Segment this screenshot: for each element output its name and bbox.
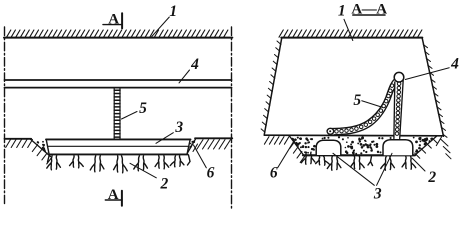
roots / soil cracks 2 (plan) (47, 155, 190, 173)
svg-text:6: 6 (270, 165, 278, 182)
tube: white core of vertical limb (394, 80, 403, 139)
wire: conveyor line 4 lower (5, 87, 232, 89)
node: excavation floor line (264, 134, 443, 137)
hatch below right ground line (193, 140, 231, 152)
title underline A-A (353, 14, 385, 16)
ticks on right wall (423, 45, 451, 159)
tube: end cap (327, 128, 334, 134)
tube: curved limb outer edge (332, 80, 394, 129)
svg-text:3: 3 (174, 119, 183, 136)
leader for label 1 (left) (152, 17, 170, 37)
svg-text:2: 2 (160, 176, 169, 193)
wire: conveyor line 4 upper (5, 79, 232, 81)
tube: corrugation rings (335, 84, 394, 133)
ticks on left wall (261, 41, 281, 132)
hatch below left ground and slope (6, 140, 52, 165)
stipple backfill wedge right (189, 140, 195, 148)
svg-text:6: 6 (207, 164, 215, 181)
leader for label 3 (left) (156, 133, 173, 144)
trench left slope (289, 135, 304, 155)
arch channel 3 left (mouse hole) (316, 140, 341, 155)
hatch of top ground line (279, 30, 422, 37)
trench bottom line (303, 154, 415, 156)
ladder rungs (114, 90, 120, 137)
node: top ground line (1) (281, 37, 422, 39)
section mark A bottom: underline (105, 199, 122, 201)
trough 3: bottom line (49, 153, 188, 155)
svg-text:1: 1 (338, 3, 346, 20)
ladder: corrugated hose 5 (plan) rails (114, 88, 120, 139)
leader for label 6 (right) (278, 139, 296, 168)
svg-text:5: 5 (353, 92, 361, 109)
hatch below floor left (264, 137, 305, 163)
trough 3: right end (187, 139, 190, 153)
section mark A top: underline (103, 24, 122, 26)
hatch below floor right (415, 137, 442, 158)
wire: right trench slope (187, 139, 195, 153)
svg-text:4: 4 (450, 55, 459, 72)
trough 3: top line (46, 138, 191, 140)
node: right ground line at trench (195, 137, 232, 139)
leader for label 5 (left) (122, 112, 138, 120)
tube: bend nozzle 4 (394, 72, 404, 82)
leader for label 1 (right) (344, 19, 353, 40)
tube: vertical limb rails (394, 80, 403, 139)
tube: curved limb inner edge (334, 88, 395, 135)
wire: left excavation wall (264, 38, 282, 135)
section mark A top: cut bar (121, 13, 123, 28)
wire: left trench slope (31, 139, 51, 156)
trench right slope (415, 136, 437, 155)
svg-text:4: 4 (190, 56, 199, 73)
leaders for label 3 (right) (333, 153, 392, 185)
stipple backfill wedge left (37, 141, 46, 152)
wire: right cutting-plane dash-dot border (231, 27, 233, 209)
wire: right excavation wall (422, 38, 443, 137)
svg-text:А: А (108, 187, 119, 203)
wire: left cutting-plane dash-dot border (4, 27, 6, 204)
trough 3: left end (46, 139, 49, 155)
node: top ground edge line (1) (4, 37, 232, 39)
svg-text:2: 2 (427, 169, 436, 186)
leader for label 6 (left) (194, 145, 207, 168)
svg-text:А: А (108, 12, 119, 28)
leader for label 2 (left) (130, 163, 156, 178)
stipple of trench backfill (291, 136, 432, 154)
trough 3: middle line (48, 145, 188, 147)
section mark A bottom: cut bar (121, 191, 123, 206)
leader for label 2 (right) (412, 158, 425, 171)
hatch of top ground edge (7, 30, 228, 37)
svg-text:3: 3 (373, 186, 382, 203)
leader for label 5 (right) (362, 101, 383, 108)
roots / soil cracks 2 (section) (301, 152, 415, 170)
tube: vertical limb beads (395, 82, 401, 135)
svg-text:5: 5 (139, 100, 147, 117)
svg-text:А—А: А—А (351, 1, 387, 17)
arch channel 3 right (mouse hole) (383, 140, 413, 156)
svg-text:1: 1 (169, 3, 177, 20)
node: left ground line at trench (5, 138, 32, 140)
leader for label 4 (right) (405, 68, 449, 80)
leader for label 4 (left) (179, 70, 190, 83)
